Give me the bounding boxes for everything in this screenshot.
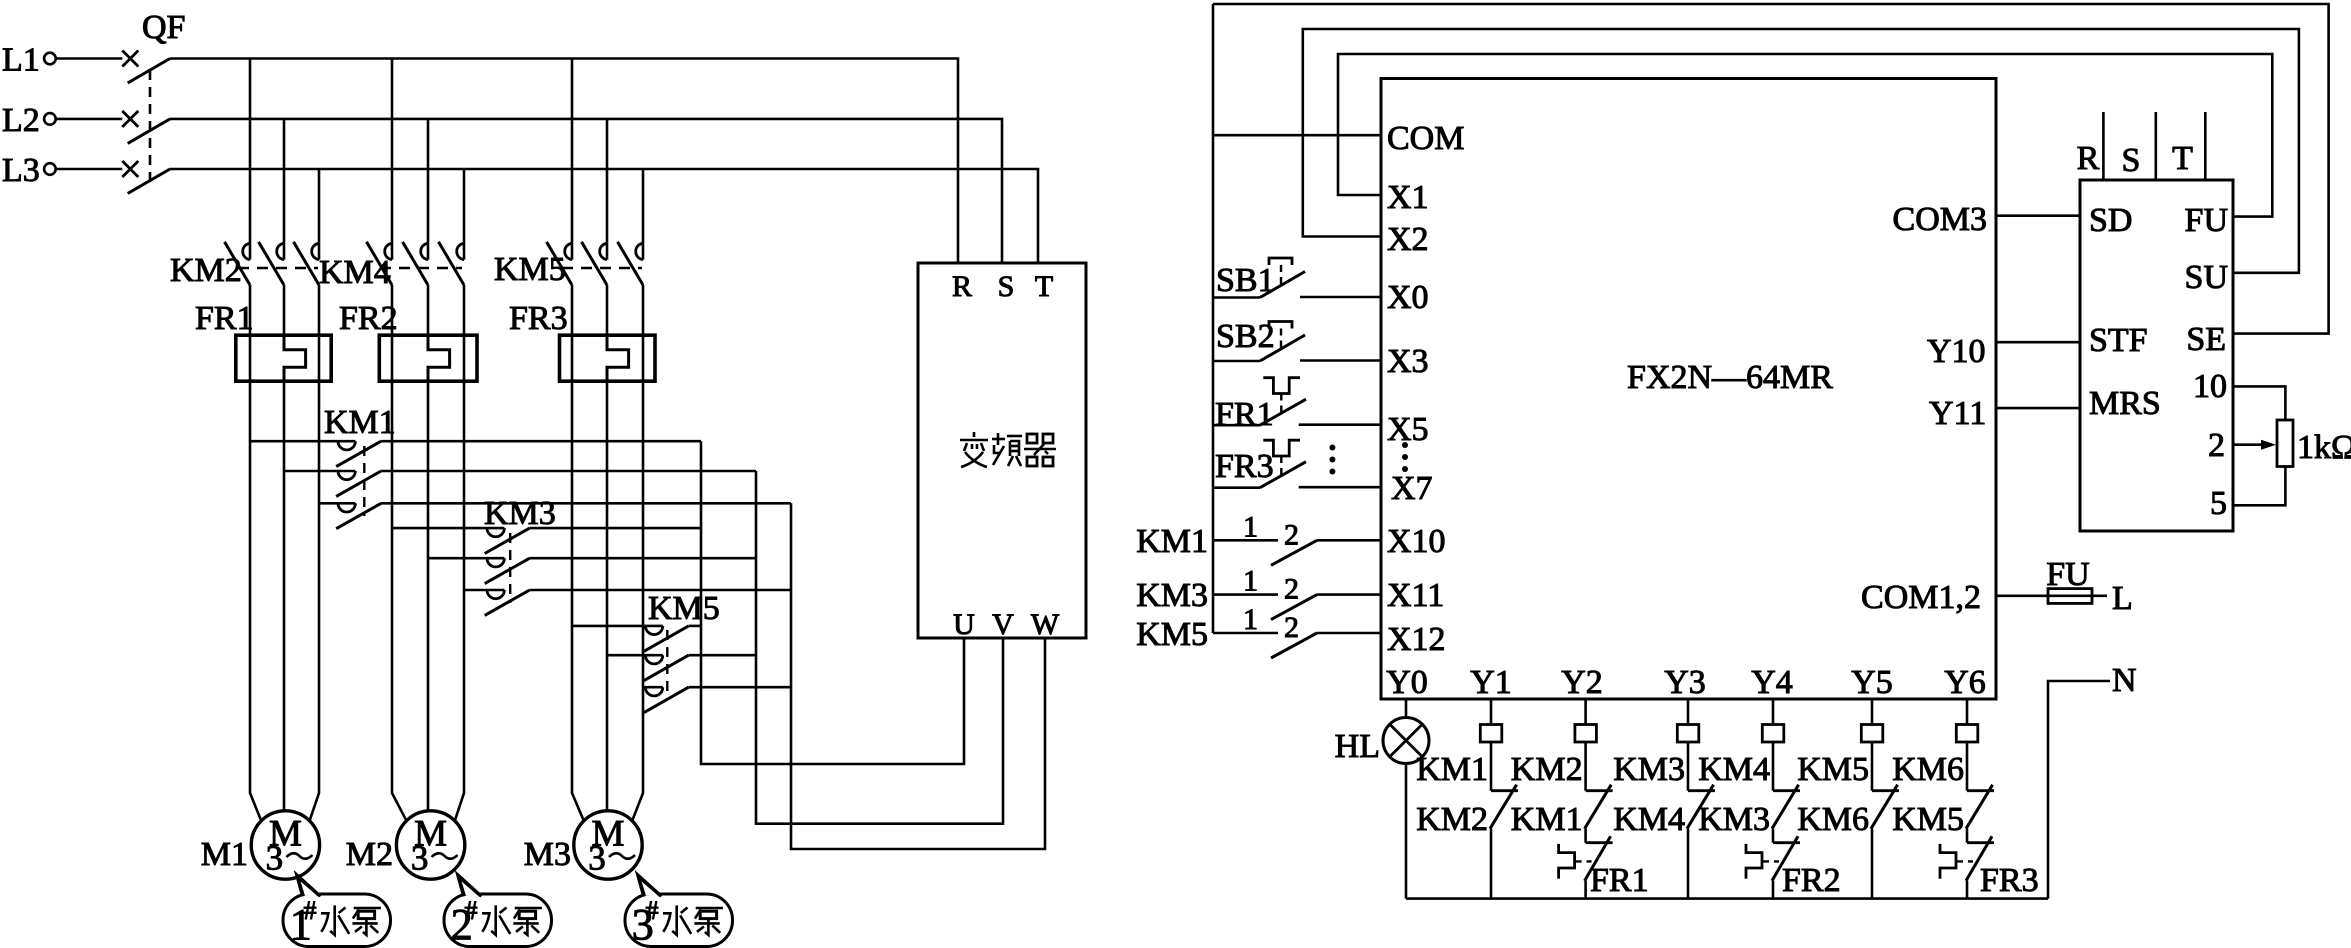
thermal contact FR3 (input) [1213,440,1381,488]
svg-text:KM1: KM1 [324,404,396,441]
contactor coil KM5 [1797,699,1883,788]
wire bus V [756,471,1003,824]
contactor coil KM3 [1613,699,1699,788]
wire motor M2 lead 3 [455,381,464,821]
svg-text:KM3: KM3 [484,495,556,532]
wire column x=464 through FR box [463,335,466,381]
svg-text:SB2: SB2 [1216,318,1275,355]
thermal relay FR3 heater box [509,300,655,381]
svg-text:KM3: KM3 [1698,801,1770,838]
breaker QF pole L1 [56,51,170,84]
svg-text:KM2: KM2 [170,252,242,289]
svg-text:10: 10 [2193,368,2227,405]
terminal L2 [2,102,56,139]
wire motor M1 lead 1 [250,381,261,821]
wire KM5 column 1 drop [571,59,574,260]
svg-text:KM2: KM2 [1416,801,1488,838]
wire branch KM5 to rail [1871,829,1874,899]
overload NC contact FR3 [1940,829,2039,899]
svg-text:KM1: KM1 [1416,751,1488,788]
svg-text:1: 1 [1243,603,1258,636]
wire COM bus to SE [1213,4,2329,334]
contactor KM1 bypass contacts [250,404,791,529]
svg-text:X11: X11 [1387,577,1444,614]
svg-text:M2: M2 [346,836,393,873]
motor M3 [574,811,642,879]
wire KM4 column 2 drop [427,119,430,260]
contactor KM2 main contacts [170,242,319,289]
wire KM2 column 2 drop [283,119,286,260]
overload NC contact FR1 [1559,829,1649,899]
wire KM4 column 1 to FR [391,285,394,335]
wire KM4 column 1 drop [391,59,394,260]
contactor KM4 main contacts [319,242,464,291]
svg-text:Y10: Y10 [1927,333,1986,370]
wire motor M3 lead 1 [572,381,584,821]
interlock NC contact KM3 [1698,742,1800,838]
svg-text:KM6: KM6 [1797,801,1869,838]
svg-text:S: S [998,270,1015,303]
svg-text:KM3: KM3 [1613,751,1685,788]
svg-text:Y3: Y3 [1664,664,1706,701]
inverter (变频器) box [918,263,1086,641]
potentiometer 1k ohm [2233,386,2351,505]
wire N [2048,681,2110,899]
svg-text:KM4: KM4 [319,254,391,291]
svg-text:#: # [304,896,317,925]
interlock NC contact KM1 [1511,742,1613,838]
svg-text:T: T [1035,270,1053,303]
svg-text:L3: L3 [2,152,40,189]
svg-text:KM2: KM2 [1511,751,1583,788]
auxiliary contact KM1 (input) [1136,510,1381,565]
wire KM2 column 2 to FR [283,285,286,335]
wire branch KM3 to rail [1687,829,1690,899]
terminal L3 [2,152,56,189]
lamp HL [1335,699,1429,899]
wire S stub [2155,112,2158,180]
svg-text:3: 3 [411,839,429,878]
svg-text:STF: STF [2089,322,2148,359]
wire motor M1 lead 3 [310,381,319,821]
callout 2#水泵 [444,875,552,948]
wire X2 to SU [1303,29,2299,273]
ellipsis dots inside PLC [1402,442,1408,472]
svg-text:FR1: FR1 [195,300,254,337]
svg-text:1kΩ: 1kΩ [2297,429,2351,466]
control terminal block [2080,180,2233,531]
svg-text:X7: X7 [1391,470,1433,507]
PLC FX2N-64MR box [1381,79,1996,700]
svg-text:KM6: KM6 [1892,751,1964,788]
svg-text:S: S [2122,142,2141,179]
svg-text:X10: X10 [1387,523,1446,560]
wire KM5 column 2 to FR [606,285,609,335]
wire branch KM1 to rail [1490,829,1493,899]
contactor KM3 bypass contacts [392,495,791,615]
svg-text:KM5: KM5 [1892,801,1964,838]
wire motor M1 lead 2 [283,381,286,811]
svg-text:X12: X12 [1387,621,1446,658]
wire bus W [791,503,1045,849]
breaker QF mechanical link [149,70,152,187]
svg-text:COM3: COM3 [1893,201,1987,238]
wire column x=250 through FR box [249,335,252,381]
svg-text:KM5: KM5 [1136,616,1208,653]
callout 3#水泵 [625,875,733,948]
thermal relay FR1 heater box [195,300,331,381]
svg-text:L2: L2 [2,102,40,139]
PLC pin labels Y0-Y6 [1386,664,1986,701]
svg-text:FR1: FR1 [1590,862,1649,899]
auxiliary contact KM5 (input) [1136,603,1381,658]
pushbutton SB2 [1213,318,1381,361]
wire KM2 column 1 to FR [249,285,252,335]
svg-text:X0: X0 [1387,279,1429,316]
svg-text:FU: FU [2185,202,2228,239]
contactor coil KM1 [1416,699,1502,788]
svg-text:FX2N—64MR: FX2N—64MR [1627,359,1833,396]
svg-text:R: R [952,270,972,303]
wire KM4 column 3 to FR [463,285,466,335]
svg-text:2: 2 [2208,427,2225,464]
svg-text:N: N [2112,662,2137,699]
thermal contact FR1 (input) [1213,378,1381,433]
breaker QF pole L2 [56,111,170,143]
wire KM5 column 2 drop [606,119,609,260]
wire KM2 column 3 to FR [318,285,321,335]
svg-text:L: L [2112,580,2133,617]
wire column x=392 through FR box [391,335,394,381]
svg-text:Y1: Y1 [1470,664,1512,701]
wire column x=572 through FR box [571,335,574,381]
svg-text:R: R [2077,140,2100,177]
wire R stub [2102,112,2105,180]
svg-text:MRS: MRS [2089,385,2161,422]
motor M2 [396,811,464,879]
svg-text:T: T [2172,140,2193,177]
motor M1 [251,811,319,879]
wire L1 phase [170,59,958,264]
svg-text:COM: COM [1387,120,1464,157]
wire KM4 column 3 drop [463,169,466,260]
interlock NC contact KM6 [1797,742,1899,838]
svg-text:KM3: KM3 [1136,577,1208,614]
svg-text:3: 3 [588,839,606,878]
svg-text:KM1: KM1 [1511,801,1583,838]
contactor KM5 bypass contacts [572,590,791,713]
wire column x=643 through FR box [642,335,645,381]
svg-text:2: 2 [1284,518,1299,551]
svg-text:SE: SE [2186,321,2226,358]
breaker QF pole L3 [56,161,170,194]
svg-text:#: # [646,896,659,925]
contactor KM5 main contacts [494,242,643,288]
svg-text:M1: M1 [201,836,248,873]
interlock NC contact KM5 [1892,742,1994,838]
wire motor M3 lead 2 [606,381,609,811]
svg-text:COM1,2: COM1,2 [1861,579,1981,616]
svg-text:1: 1 [1243,565,1258,598]
wire Y10 to STF [1996,341,2080,344]
label 变频器 [960,432,1056,467]
wire KM5 column 1 to FR [571,285,574,335]
svg-text:SD: SD [2089,202,2132,239]
svg-text:KM5: KM5 [648,590,720,627]
wire L3 phase [170,169,1038,263]
thermal relay FR2 heater box [339,300,477,381]
svg-text:X1: X1 [1387,179,1429,216]
svg-text:Y5: Y5 [1851,664,1893,701]
svg-text:KM4: KM4 [1698,751,1770,788]
svg-text:FR3: FR3 [1980,862,2039,899]
wire KM2 column 1 drop [249,59,252,260]
ellipsis dots left of PLC [1329,445,1335,475]
svg-text:V: V [992,608,1014,641]
svg-text:L1: L1 [2,42,40,79]
contactor coil KM6 [1892,699,1978,788]
wire motor M2 lead 2 [427,381,430,811]
svg-text:#: # [465,896,478,925]
pushbutton SB1 [1213,258,1381,299]
svg-text:FR2: FR2 [1782,862,1841,899]
svg-text:5: 5 [2210,485,2227,522]
auxiliary contact KM3 (input) [1136,565,1381,620]
wire X1 to FU [1338,54,2272,217]
terminal L1 [2,42,56,79]
interlock NC contact KM2 [1416,742,1518,838]
wire KM5 column 3 drop [642,169,645,260]
svg-text:2: 2 [1284,611,1299,644]
wire Y11 to MRS [1996,407,2080,410]
svg-text:KM1: KM1 [1136,523,1208,560]
svg-text:HL: HL [1335,728,1380,765]
svg-text:X3: X3 [1387,343,1429,380]
svg-text:QF: QF [142,9,185,46]
svg-text:U: U [953,608,975,641]
contactor coil KM4 [1698,699,1784,788]
svg-text:X5: X5 [1387,411,1429,448]
svg-text:KM5: KM5 [1797,751,1869,788]
wire left COM bus [1212,4,1215,633]
contactor coil KM2 [1511,699,1597,788]
wire COM3 to SD [1996,214,2080,217]
svg-text:1: 1 [1243,510,1258,543]
svg-text:Y2: Y2 [1561,664,1603,701]
wire L2 phase [170,119,1002,263]
wire output rail [1406,897,2048,900]
svg-text:M3: M3 [524,836,571,873]
interlock NC contact KM4 [1613,742,1715,838]
wire column x=319 through FR box [318,335,321,381]
svg-text:3: 3 [266,839,284,878]
wire KM2 column 3 drop [318,169,321,260]
svg-text:FR1: FR1 [1215,396,1274,433]
svg-text:2: 2 [1284,573,1299,606]
svg-text:Y6: Y6 [1944,664,1986,701]
wire T stub [2204,112,2207,180]
wire motor M2 lead 1 [392,381,406,821]
svg-text:FR2: FR2 [339,300,398,337]
svg-text:X2: X2 [1387,221,1429,258]
svg-text:SU: SU [2185,259,2228,296]
svg-text:FR3: FR3 [509,300,568,337]
svg-text:Y11: Y11 [1929,395,1986,432]
svg-text:KM4: KM4 [1613,801,1685,838]
svg-text:Y4: Y4 [1751,664,1793,701]
fuse FU [1996,556,2107,603]
callout 1#水泵 [283,875,391,948]
svg-text:W: W [1031,608,1060,641]
wire bus U [701,441,964,764]
svg-text:Y0: Y0 [1386,664,1428,701]
svg-text:FR3: FR3 [1215,448,1274,485]
wire KM4 column 2 to FR [427,285,430,335]
wire KM5 column 3 to FR [642,285,645,335]
wire motor M3 lead 3 [632,381,643,821]
overload NC contact FR2 [1746,829,1841,899]
wire COM pin [1213,134,1381,137]
